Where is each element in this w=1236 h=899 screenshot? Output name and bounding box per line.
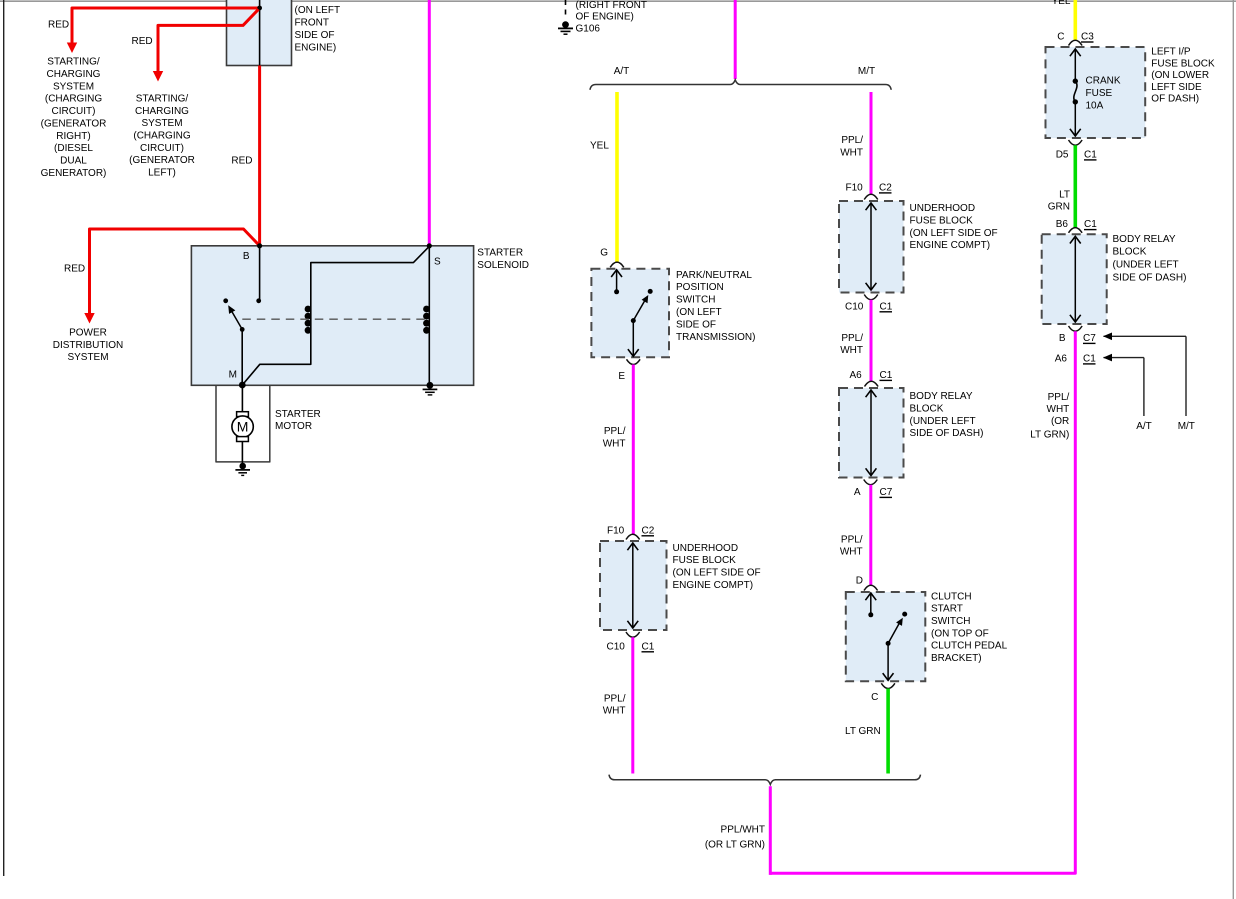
connector C7 below body relay block — [864, 480, 878, 485]
svg-text:ENGINE): ENGINE) — [295, 42, 337, 53]
svg-text:DUAL: DUAL — [60, 156, 87, 167]
wire PPL/WHT from PNP switch — [632, 365, 635, 535]
crank fuse element — [1073, 78, 1078, 83]
PNP switch movable arm — [633, 300, 645, 320]
svg-text:F10: F10 — [846, 183, 864, 194]
clutch switch movable arm — [888, 623, 899, 644]
ground G106 symbol — [562, 21, 569, 28]
svg-text:WHT: WHT — [840, 147, 863, 158]
wire RED to generator right — [72, 8, 260, 43]
svg-text:RED: RED — [132, 36, 153, 47]
svg-text:(CHARGING: (CHARGING — [133, 131, 190, 142]
wire motor to ground — [241, 442, 243, 467]
svg-text:(GENERATOR: (GENERATOR — [129, 155, 195, 166]
wire PPL/WHT M/T branch — [870, 92, 873, 195]
node B terminal — [257, 243, 262, 248]
svg-text:CLUTCH: CLUTCH — [931, 591, 972, 602]
svg-text:RIGHT): RIGHT) — [56, 131, 90, 142]
solenoid plunger dashed link — [242, 318, 425, 320]
svg-text:SYSTEM: SYSTEM — [67, 352, 108, 363]
svg-text:LT: LT — [1059, 190, 1070, 201]
body relay block (M/T path) box — [839, 388, 904, 478]
svg-text:LT GRN: LT GRN — [845, 726, 881, 737]
svg-text:STARTER: STARTER — [275, 409, 321, 420]
svg-text:C3: C3 — [1081, 32, 1094, 43]
node S terminal — [427, 243, 432, 248]
wire LT GRN from clutch start switch — [886, 689, 890, 774]
svg-text:WHT: WHT — [840, 546, 863, 557]
svg-text:SIDE OF: SIDE OF — [295, 30, 335, 41]
svg-text:BRACKET): BRACKET) — [931, 653, 982, 664]
svg-text:RED: RED — [64, 264, 85, 275]
arrowhead to power distribution system — [84, 313, 94, 324]
svg-text:WHT: WHT — [1047, 404, 1070, 415]
reference arrow M/T to C7 — [1104, 335, 1187, 337]
svg-text:START: START — [931, 604, 963, 615]
svg-text:B: B — [1059, 333, 1066, 344]
starter solenoid box — [191, 246, 473, 385]
dashed wire stub to G106 — [565, 0, 567, 19]
wire M terminal to motor — [241, 385, 243, 412]
svg-text:M/T: M/T — [858, 66, 875, 77]
svg-text:M: M — [229, 370, 237, 381]
circuit through underhood fuse block — [632, 545, 634, 627]
brace splice A/T M/T join — [609, 775, 921, 785]
solenoid pull-in winding circuit — [242, 246, 429, 385]
svg-text:POWER: POWER — [69, 328, 107, 339]
svg-text:CIRCUIT): CIRCUIT) — [140, 143, 184, 154]
svg-text:C1: C1 — [1084, 219, 1097, 230]
svg-text:BODY RELAY: BODY RELAY — [1113, 234, 1176, 245]
svg-text:WHT: WHT — [603, 438, 626, 449]
solenoid arm to M terminal — [241, 329, 243, 385]
wire PPL/WHT from body relay block down and to splice — [770, 331, 1075, 873]
motor brush cap bottom — [237, 437, 249, 442]
arrowhead to starting/charging system right — [67, 43, 77, 54]
ground symbol at starter motor — [235, 469, 250, 471]
node solenoid arm pivot — [240, 327, 245, 332]
svg-text:PPL/: PPL/ — [604, 426, 626, 437]
svg-text:CIRCUIT): CIRCUIT) — [52, 106, 96, 117]
svg-text:C7: C7 — [1083, 333, 1096, 344]
svg-text:(ON LEFT: (ON LEFT — [295, 5, 341, 16]
svg-text:E: E — [618, 371, 625, 382]
connector C1 below underhood fuse block — [864, 295, 878, 300]
wire PPL trunk from ignition switch — [734, 0, 737, 79]
svg-text:B: B — [243, 251, 250, 262]
svg-text:(ON LEFT SIDE OF: (ON LEFT SIDE OF — [673, 568, 761, 579]
connector at PNP switch pin E — [627, 359, 641, 364]
svg-text:CLUTCH PEDAL: CLUTCH PEDAL — [931, 641, 1008, 652]
svg-text:(OR LT GRN): (OR LT GRN) — [705, 840, 765, 851]
node PNP switch common — [631, 318, 636, 323]
PNP switch pin G lead — [616, 270, 618, 292]
svg-text:PARK/NEUTRAL: PARK/NEUTRAL — [676, 270, 752, 281]
svg-text:UNDERHOOD: UNDERHOOD — [910, 203, 976, 214]
junction block (ON LEFT FRONT SIDE OF ENGINE) — [227, 0, 292, 66]
reference arrow A/T to C1 — [1104, 357, 1144, 359]
circuit through underhood fuse block — [870, 205, 872, 289]
svg-text:D5: D5 — [1056, 150, 1069, 161]
svg-text:STARTING/: STARTING/ — [136, 94, 189, 105]
left I/P fuse block box — [1046, 47, 1146, 138]
svg-text:F10: F10 — [607, 525, 625, 536]
svg-text:WHT: WHT — [840, 345, 863, 356]
hold-in coil — [423, 306, 430, 313]
connector C1 at body relay block — [865, 381, 879, 386]
svg-text:LEFT SIDE: LEFT SIDE — [1151, 82, 1202, 93]
park/neutral position switch box — [591, 269, 669, 358]
svg-text:PPL/: PPL/ — [1048, 392, 1070, 403]
svg-text:FUSE BLOCK: FUSE BLOCK — [1151, 58, 1215, 69]
wire RED to generator left — [158, 9, 259, 71]
svg-text:B6: B6 — [1056, 219, 1069, 230]
page left border — [3, 0, 5, 876]
body relay block (right) box — [1042, 234, 1107, 324]
svg-text:S: S — [434, 257, 441, 268]
node clutch switch fixed contact upper right — [902, 612, 907, 617]
svg-text:STARTER: STARTER — [477, 248, 523, 259]
svg-text:FUSE: FUSE — [1086, 88, 1113, 99]
svg-text:SOLENOID: SOLENOID — [477, 260, 529, 271]
svg-text:TRANSMISSION): TRANSMISSION) — [676, 332, 755, 343]
svg-text:SIDE OF DASH): SIDE OF DASH) — [910, 428, 984, 439]
connector C at PNP switch pin G — [610, 262, 624, 267]
node junction at battery feed — [257, 6, 262, 11]
svg-text:LEFT I/P: LEFT I/P — [1151, 47, 1191, 58]
svg-text:C1: C1 — [880, 370, 893, 381]
svg-text:A/T: A/T — [1136, 421, 1152, 432]
svg-text:LT GRN): LT GRN) — [1030, 430, 1069, 441]
circuit through body relay block — [1074, 238, 1076, 321]
svg-text:(ON LEFT SIDE OF: (ON LEFT SIDE OF — [910, 228, 998, 239]
svg-text:SWITCH: SWITCH — [676, 295, 715, 306]
svg-text:(RIGHT FRONT: (RIGHT FRONT — [576, 0, 647, 11]
svg-text:LEFT): LEFT) — [148, 168, 176, 179]
svg-text:PPL/: PPL/ — [841, 135, 863, 146]
svg-text:G: G — [600, 248, 608, 259]
svg-text:C1: C1 — [1083, 354, 1096, 365]
connector C3 at left I/P fuse block — [1069, 40, 1083, 45]
connector C1 below left I/P fuse block — [1069, 140, 1083, 145]
svg-text:FUSE BLOCK: FUSE BLOCK — [910, 215, 974, 226]
wire PPL/WHT to body relay block — [870, 300, 873, 382]
node clutch switch fixed contact D — [868, 612, 873, 617]
svg-text:CHARGING: CHARGING — [135, 106, 189, 117]
clutch start switch box — [846, 592, 926, 681]
PNP switch pin E lead — [632, 321, 634, 356]
node PNP fixed contact G — [614, 289, 619, 294]
wire inside junction block — [259, 0, 261, 66]
svg-text:C2: C2 — [642, 525, 655, 536]
wire YEL to crank fuse — [1074, 0, 1078, 41]
wire PPL/WHT from brace down — [769, 786, 772, 875]
svg-text:(UNDER LEFT: (UNDER LEFT — [1113, 260, 1179, 271]
svg-text:(OR: (OR — [1051, 416, 1069, 427]
svg-text:FUSE BLOCK: FUSE BLOCK — [673, 555, 737, 566]
underhood fuse block (M/T path) box — [839, 201, 904, 293]
node M terminal — [239, 382, 246, 389]
svg-text:C: C — [1057, 32, 1064, 43]
starter motor case — [216, 385, 270, 462]
solenoid contact lead from B — [259, 246, 261, 301]
connector C1 below underhood fuse block — [626, 632, 640, 637]
wire RED to power distribution — [90, 229, 260, 314]
svg-text:(GENERATOR: (GENERATOR — [41, 118, 107, 129]
node solenoid fixed contact switch side — [223, 298, 228, 303]
svg-text:SYSTEM: SYSTEM — [53, 81, 94, 92]
svg-text:ENGINE COMPT): ENGINE COMPT) — [910, 240, 991, 251]
svg-text:SIDE OF DASH): SIDE OF DASH) — [1113, 273, 1187, 284]
svg-text:OF DASH): OF DASH) — [1151, 94, 1199, 105]
svg-text:BODY RELAY: BODY RELAY — [910, 391, 973, 402]
hold-in winding from S — [428, 246, 430, 385]
svg-text:PPL/: PPL/ — [841, 534, 863, 545]
connector C2 at underhood fuse block — [626, 534, 640, 539]
svg-text:POSITION: POSITION — [676, 282, 724, 293]
svg-text:STARTING/: STARTING/ — [47, 57, 100, 68]
svg-text:G106: G106 — [576, 24, 601, 35]
wire PPL/WHT to solenoid S terminal — [428, 0, 431, 246]
svg-text:(DIESEL: (DIESEL — [54, 143, 93, 154]
node solenoid ground — [427, 382, 434, 389]
node solenoid fixed contact B side — [256, 298, 261, 303]
connector at clutch start switch pin D — [864, 585, 878, 590]
underhood fuse block (A/T path) box — [600, 541, 667, 630]
svg-text:(UNDER LEFT: (UNDER LEFT — [910, 416, 976, 427]
svg-text:A6: A6 — [850, 370, 863, 381]
svg-text:MOTOR: MOTOR — [275, 421, 312, 432]
svg-text:BLOCK: BLOCK — [1113, 247, 1147, 258]
node PNP fixed contact upper right — [648, 289, 653, 294]
svg-text:GRN: GRN — [1048, 201, 1070, 212]
svg-text:SYSTEM: SYSTEM — [141, 118, 182, 129]
svg-text:RED: RED — [231, 156, 252, 167]
clutch switch pin C lead — [887, 643, 889, 679]
svg-text:C1: C1 — [642, 641, 655, 652]
svg-text:SIDE OF: SIDE OF — [676, 319, 716, 330]
svg-text:SWITCH: SWITCH — [931, 616, 970, 627]
svg-text:C10: C10 — [607, 641, 626, 652]
brace A/T M/T split — [590, 80, 891, 90]
svg-text:C10: C10 — [845, 301, 864, 312]
svg-text:GENERATOR): GENERATOR) — [41, 168, 107, 179]
circuit through crank fuse — [1074, 51, 1076, 82]
svg-text:PPL/: PPL/ — [604, 693, 626, 704]
svg-text:A: A — [854, 487, 861, 498]
svg-text:(ON LOWER: (ON LOWER — [1151, 70, 1209, 81]
svg-text:BLOCK: BLOCK — [910, 403, 944, 414]
svg-text:FRONT: FRONT — [295, 17, 329, 28]
circuit through body relay block — [870, 392, 872, 475]
wire PPL/WHT to splice brace — [631, 637, 634, 773]
motor body — [232, 416, 253, 437]
svg-text:RED: RED — [48, 20, 69, 31]
svg-text:C1: C1 — [880, 301, 893, 312]
svg-text:(ON TOP OF: (ON TOP OF — [931, 628, 989, 639]
ground symbol at solenoid — [423, 388, 438, 390]
svg-text:DISTRIBUTION: DISTRIBUTION — [53, 340, 124, 351]
svg-text:ENGINE COMPT): ENGINE COMPT) — [673, 580, 754, 591]
svg-text:PPL/: PPL/ — [841, 333, 863, 344]
svg-text:CRANK: CRANK — [1086, 76, 1121, 87]
motor brush cap top — [237, 412, 249, 417]
svg-text:C1: C1 — [1084, 150, 1097, 161]
connector at clutch start switch pin C — [881, 683, 895, 688]
svg-text:C2: C2 — [879, 183, 892, 194]
solenoid movable contact arm — [232, 311, 243, 329]
svg-text:YEL: YEL — [1052, 0, 1071, 7]
pull-in coil — [305, 306, 312, 313]
svg-text:PPL/WHT: PPL/WHT — [721, 825, 765, 836]
svg-text:UNDERHOOD: UNDERHOOD — [673, 543, 739, 554]
svg-text:(CHARGING: (CHARGING — [45, 94, 102, 105]
page top border — [0, 0, 1236, 2]
svg-text:C: C — [871, 692, 878, 703]
svg-text:YEL: YEL — [590, 141, 609, 152]
wire LT GRN fuse to body relay block — [1074, 145, 1078, 228]
svg-text:C7: C7 — [880, 487, 893, 498]
connector C2 at underhood fuse block — [864, 194, 878, 199]
svg-text:(ON LEFT: (ON LEFT — [676, 307, 722, 318]
wire YEL A/T branch — [615, 92, 619, 262]
connector C1 at body relay block — [1069, 228, 1083, 233]
wire RED battery to solenoid B — [258, 66, 261, 246]
svg-text:A6: A6 — [1055, 354, 1068, 365]
connector C7 below body relay block — [1069, 326, 1083, 331]
node clutch switch common — [886, 641, 891, 646]
svg-text:A/T: A/T — [614, 66, 630, 77]
page right border — [1232, 0, 1234, 899]
node motor ground — [239, 463, 246, 470]
svg-text:M/T: M/T — [1178, 421, 1195, 432]
svg-text:WHT: WHT — [603, 706, 626, 717]
clutch switch pin D lead — [870, 593, 872, 615]
svg-text:D: D — [856, 576, 863, 587]
svg-text:CHARGING: CHARGING — [47, 69, 101, 80]
svg-text:10A: 10A — [1086, 101, 1104, 112]
svg-text:OF ENGINE): OF ENGINE) — [576, 12, 634, 23]
arrowhead to starting/charging system left — [153, 71, 163, 82]
svg-text:M: M — [237, 419, 249, 435]
wire PPL/WHT to clutch start switch — [869, 485, 872, 586]
